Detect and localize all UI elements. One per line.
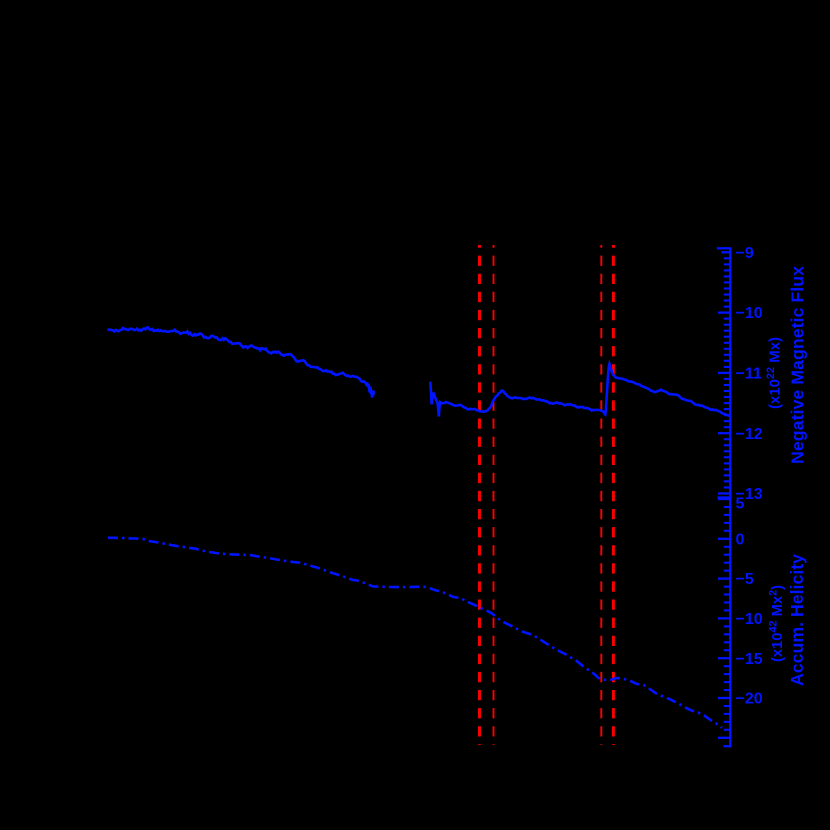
svg-text:5: 5 — [736, 495, 745, 512]
flux curve segment 2 (solid) — [430, 364, 730, 417]
svg-text:Negative Magnetic Flux: Negative Magnetic Flux — [788, 266, 808, 464]
red dashed vertical line: flare1 end (thin) — [493, 245, 495, 745]
svg-text:Accum. Helicity: Accum. Helicity — [787, 554, 807, 686]
svg-text:−20: −20 — [736, 691, 763, 708]
svg-text:−11: −11 — [736, 366, 762, 383]
flux curve segment 1 (solid) — [108, 328, 374, 398]
svg-text:−15: −15 — [736, 651, 763, 668]
red dashed vertical line: flare1 start (thick) — [478, 245, 481, 745]
svg-text:−10: −10 — [736, 611, 763, 628]
axis title: Accum. Helicity — [787, 554, 807, 686]
axis title: (x10^42 Mx^2) — [768, 585, 787, 662]
axis tick marks — [717, 248, 732, 746]
helicity curve (dash-dot) — [108, 538, 722, 728]
axis title: (x10^22 Mx) — [765, 337, 784, 409]
axis title: Negative Magnetic Flux — [788, 266, 808, 464]
svg-text:−10: −10 — [736, 305, 763, 322]
axis tick labels — [736, 245, 763, 708]
svg-text:−5: −5 — [736, 571, 754, 588]
svg-text:−12: −12 — [736, 426, 763, 443]
right y-axis spine — [729, 248, 732, 748]
svg-text:−9: −9 — [736, 245, 754, 262]
red dashed vertical line: flare2 start (thin) — [600, 245, 602, 745]
svg-text:0: 0 — [736, 531, 745, 548]
red dashed vertical line: flare2 end (thick) — [612, 245, 615, 745]
